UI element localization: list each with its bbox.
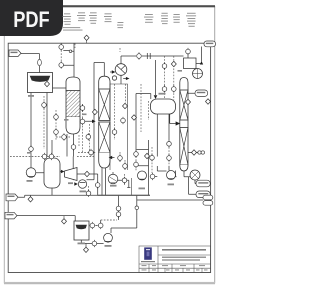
svg-text:PDF: PDF bbox=[13, 7, 49, 32]
